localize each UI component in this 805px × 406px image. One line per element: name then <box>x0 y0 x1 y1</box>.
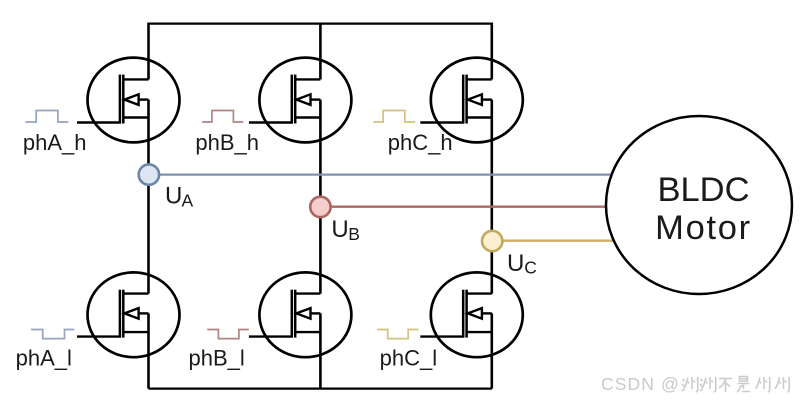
svg-text:phC_h: phC_h <box>388 130 453 155</box>
wire: phase C high-side source to low-side drain (phase node line) <box>490 100 493 294</box>
svg-text:phC_l: phC_l <box>380 346 437 371</box>
phB_l gate pulse waveform <box>207 330 249 339</box>
transistor Q6 (phC_l) body arrow <box>468 308 482 319</box>
transistor Q6 (phC_l) gate bar <box>462 290 465 337</box>
transistor Q3 (phB_h) channel bar <box>294 75 297 124</box>
transistor Q1 (phA_h) source/body lead <box>139 98 149 100</box>
wire: phase B high-side source to low-side drain (phase node line) <box>319 100 322 294</box>
transistor Q3 (phB_h) drain lead <box>295 78 320 80</box>
wire: phase A high-side source to low-side drain (phase node line) <box>147 100 150 294</box>
transistor Q2 (phA_l) body arrow <box>125 308 139 319</box>
svg-text:CSDN @: CSDN @ <box>601 374 680 394</box>
transistor Q6 (phC_l) body circle <box>431 272 523 357</box>
transistor Q4 (phB_l) drain lead <box>295 292 320 294</box>
transistor Q1 (phA_h) gate lead wire <box>77 121 121 123</box>
transistor Q6 (phC_l) gate lead wire <box>420 335 464 337</box>
transistor Q3 (phB_h) gate bar <box>291 75 294 123</box>
transistor Q2 (phA_l) source bottom lead <box>123 331 148 333</box>
watermark CJK characters <box>682 377 698 392</box>
transistor Q3 (phB_h) source bottom lead <box>295 116 320 118</box>
svg-text:phA_l: phA_l <box>16 345 72 370</box>
svg-text:Motor: Motor <box>655 209 752 247</box>
wire: top DC bus rail <box>149 22 492 24</box>
transistor Q1 (phA_h) drain lead <box>123 78 148 80</box>
transistor Q2 (phA_l) source/body lead <box>139 312 149 314</box>
svg-text:BLDC: BLDC <box>657 171 749 209</box>
transistor Q2 (phA_l) gate lead wire <box>77 335 121 337</box>
node UA junction dot <box>139 164 159 184</box>
transistor Q1 (phA_h) source bottom lead <box>123 116 148 118</box>
svg-text:U: U <box>165 183 182 210</box>
transistor Q1 (phA_h) gate bar <box>119 75 122 123</box>
wire: phase B low-side source to bottom rail <box>319 313 322 388</box>
svg-text:U: U <box>331 216 348 243</box>
wire: phase C top bus drop to high-side drain <box>490 23 493 80</box>
phA_l gate pulse waveform <box>31 330 74 339</box>
svg-text:U: U <box>507 250 524 277</box>
svg-text:phB_l: phB_l <box>189 345 245 370</box>
transistor Q5 (phC_h) body circle <box>431 58 523 143</box>
svg-text:A: A <box>182 190 194 210</box>
transistor Q3 (phB_h) body arrow <box>296 94 310 105</box>
phB_h gate pulse waveform <box>202 111 243 123</box>
transistor Q5 (phC_h) channel bar <box>465 75 468 124</box>
transistor Q4 (phB_l) source bottom lead <box>295 331 320 333</box>
node UB junction dot <box>310 197 330 217</box>
svg-text:C: C <box>524 258 537 278</box>
transistor Q3 (phB_h) gate lead wire <box>249 121 293 123</box>
transistor Q4 (phB_l) gate lead wire <box>249 335 293 337</box>
transistor Q5 (phC_h) gate bar <box>462 75 465 123</box>
transistor Q1 (phA_h) channel bar <box>122 75 125 124</box>
transistor Q6 (phC_l) source bottom lead <box>467 331 492 333</box>
wire: phase C low-side source to bottom rail <box>490 313 493 388</box>
transistor Q6 (phC_l) drain lead <box>467 292 492 294</box>
svg-text:phA_h: phA_h <box>23 130 87 155</box>
transistor Q2 (phA_l) body circle <box>88 272 180 357</box>
wire: phase A top bus drop to high-side drain <box>147 23 150 80</box>
transistor Q1 (phA_h) body arrow <box>125 94 139 105</box>
transistor Q6 (phC_l) source/body lead <box>482 312 492 314</box>
phC_h gate pulse waveform <box>373 111 415 123</box>
transistor Q5 (phC_h) body arrow <box>468 94 482 105</box>
transistor Q5 (phC_h) drain lead <box>467 78 492 80</box>
wire: phase A low-side source to bottom rail <box>147 313 150 388</box>
transistor Q4 (phB_l) channel bar <box>294 290 297 338</box>
transistor Q4 (phB_l) body arrow <box>296 308 310 319</box>
transistor Q6 (phC_l) channel bar <box>465 290 468 338</box>
transistor Q2 (phA_l) gate bar <box>119 290 122 337</box>
transistor Q1 (phA_h) body circle <box>88 58 180 143</box>
transistor Q5 (phC_h) source bottom lead <box>467 116 492 118</box>
svg-text:phB_h: phB_h <box>195 130 259 155</box>
svg-text:B: B <box>348 224 360 244</box>
node UC junction dot <box>482 231 502 251</box>
phA_h gate pulse waveform <box>26 111 69 123</box>
wire: phase B top bus drop to high-side drain <box>319 23 322 80</box>
transistor Q5 (phC_h) source/body lead <box>482 98 492 100</box>
transistor Q5 (phC_h) gate lead wire <box>420 121 464 123</box>
wire: phase C output (yellow) node UC to motor <box>492 240 620 242</box>
transistor Q4 (phB_l) source/body lead <box>311 312 321 314</box>
transistor Q4 (phB_l) gate bar <box>291 290 294 337</box>
transistor Q2 (phA_l) drain lead <box>123 292 148 294</box>
motor M1: BLDC motor body <box>606 116 792 294</box>
phC_l gate pulse waveform <box>377 330 418 339</box>
transistor Q2 (phA_l) channel bar <box>122 290 125 338</box>
wire: phase A output (blue) node UA to motor <box>149 173 620 175</box>
wire: phase B output (red) node UB to motor <box>320 206 617 208</box>
transistor Q4 (phB_l) body circle <box>259 272 351 357</box>
transistor Q3 (phB_h) source/body lead <box>311 98 321 100</box>
transistor Q3 (phB_h) body circle <box>259 58 351 143</box>
wire: bottom DC bus rail <box>149 387 492 389</box>
